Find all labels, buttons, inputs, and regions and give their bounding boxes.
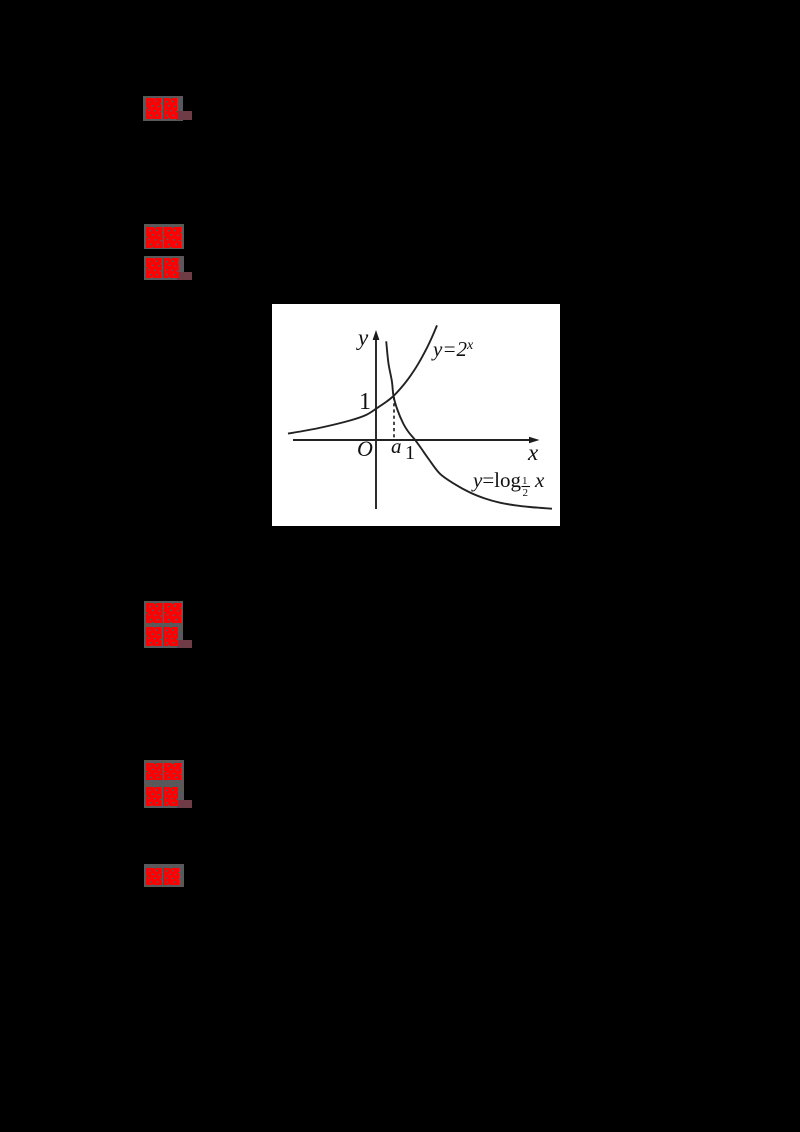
label block 3 : one row + dark-red tail: [144, 256, 184, 280]
dashed line at x=a: [393, 397, 395, 439]
svg-text:1: 1: [359, 389, 371, 415]
svg-text:1: 1: [522, 475, 528, 487]
svg-text:y: y: [356, 325, 369, 350]
label block 6 : one row: [144, 864, 184, 887]
svg-text:a: a: [391, 434, 402, 458]
exp curve y=2^x: [288, 325, 437, 433]
svg-text:1: 1: [405, 442, 415, 464]
label block 1 : one row + dark-red tail: [143, 96, 183, 121]
label block 2 : one row: [144, 224, 184, 249]
white graph panel: [272, 304, 560, 526]
log curve y=log(1/2)x: [386, 341, 552, 508]
label block 5 : two rows + dark-red tail: [144, 760, 184, 808]
label block 4 : two rows + dark-red tail: [144, 601, 184, 648]
svg-text:x: x: [527, 440, 539, 465]
svg-text:y=log: y=log: [471, 468, 522, 492]
svg-text:x: x: [534, 468, 545, 492]
y axis: [375, 338, 377, 509]
svg-text:O: O: [357, 436, 373, 461]
svg-text:2: 2: [523, 487, 529, 499]
x axis: [293, 439, 531, 441]
svg-text:y=2x: y=2x: [431, 337, 474, 361]
